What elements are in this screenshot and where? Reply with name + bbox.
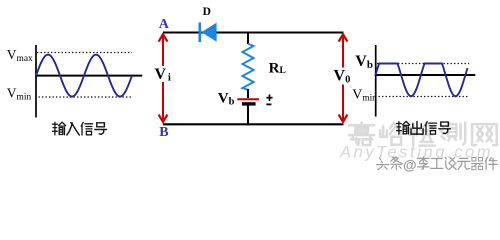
V0 measurement arrow (right, red, double-headed) <box>339 34 348 122</box>
svg-text:B: B <box>159 125 168 140</box>
label Vi <box>154 66 174 82</box>
output panel horizontal axis <box>375 74 476 76</box>
input sine waveform <box>36 55 132 97</box>
output Vb dotted level line <box>377 63 469 65</box>
input Vmin dotted level line <box>35 96 132 98</box>
byline 头条@李工谈元器件 (gray embossed) <box>377 157 499 174</box>
Vi measurement arrow (left, red, double-headed) <box>159 34 168 122</box>
wire: top rail <box>163 32 344 34</box>
svg-text:Vmin: Vmin <box>7 85 32 102</box>
label V0 <box>333 68 350 85</box>
resistor RL (blue zigzag) <box>242 44 253 90</box>
svg-text:@: @ <box>403 157 417 173</box>
output clipped waveform <box>376 64 468 97</box>
input Vmax dotted level line <box>37 52 132 54</box>
battery minus sign <box>266 103 271 105</box>
caption 输出信号 (output signal) <box>397 122 451 135</box>
wire: battery to bottom rail <box>247 106 249 124</box>
output panel vertical axis <box>375 45 377 117</box>
caption 输入信号 (input signal) <box>53 122 107 135</box>
svg-text:D: D <box>203 6 211 18</box>
input panel horizontal axis <box>35 75 142 77</box>
svg-text:Vb: Vb <box>355 53 373 71</box>
input panel vertical axis <box>35 45 37 118</box>
diode D (blue) <box>199 23 217 43</box>
battery plus sign <box>266 94 272 101</box>
wire: resistor to battery <box>247 89 249 98</box>
battery Vb: positive plate (red) <box>237 98 259 100</box>
wire: bottom rail <box>163 123 344 125</box>
svg-text:A: A <box>159 17 170 32</box>
svg-text:RL: RL <box>269 60 286 76</box>
svg-text:Vb: Vb <box>218 90 235 107</box>
battery Vb: negative plate (black) <box>242 102 256 105</box>
svg-text:Vmax: Vmax <box>7 47 33 64</box>
wire: resistor branch top stub <box>247 33 249 44</box>
output Vmin dotted level line <box>375 96 468 98</box>
watermark big gray text 嘉峪检测网 <box>349 123 497 146</box>
svg-text:Vmin: Vmin <box>352 87 377 102</box>
